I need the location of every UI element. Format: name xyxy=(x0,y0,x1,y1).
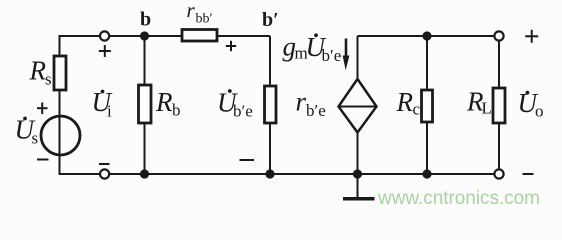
svg-text:b: b xyxy=(172,101,181,120)
wire left rail upper xyxy=(59,35,61,57)
label RL xyxy=(466,87,492,118)
svg-text:s: s xyxy=(45,70,52,89)
svg-text:c: c xyxy=(413,100,421,119)
minus input bottom xyxy=(99,163,110,165)
svg-text:o: o xyxy=(535,102,544,121)
label Uo xyxy=(518,88,544,121)
wire controlled-source branch upper xyxy=(357,36,359,80)
svg-text:s: s xyxy=(32,129,39,148)
junction Rc bottom xyxy=(422,169,431,178)
minus output bottom xyxy=(523,173,534,175)
wire left rail lower xyxy=(59,89,61,175)
wire b' branch upper xyxy=(269,36,271,87)
wire bottom rail xyxy=(60,173,500,175)
label Rc xyxy=(396,87,421,119)
svg-text:b′e: b′e xyxy=(233,102,253,121)
wire b' branch lower xyxy=(269,123,271,175)
ground xyxy=(343,174,375,199)
label Rb xyxy=(155,87,181,120)
resistor Rs xyxy=(54,56,66,90)
wire controlled-source branch lower xyxy=(357,131,359,174)
wire RL branch upper xyxy=(498,40,500,88)
resistor rbb' xyxy=(182,30,217,42)
label gmUb'e xyxy=(283,32,342,66)
wire top-right rail xyxy=(358,35,500,37)
resistor RL xyxy=(493,88,505,123)
terminal input top xyxy=(100,31,109,40)
svg-text:bb′: bb′ xyxy=(196,12,213,27)
plus Us xyxy=(37,103,48,115)
terminal output top xyxy=(494,31,503,40)
resistor rb'e xyxy=(265,86,277,123)
node b junction xyxy=(140,31,149,40)
svg-text:r: r xyxy=(187,0,196,22)
resistor Rc xyxy=(422,90,433,122)
controlled current source gmUb'e (diamond) xyxy=(339,79,377,133)
svg-text:R: R xyxy=(155,87,173,117)
label Ui xyxy=(92,87,113,121)
svg-text:www.cntronics.com: www.cntronics.com xyxy=(377,188,540,209)
current direction arrow xyxy=(343,39,350,71)
label Us xyxy=(15,115,39,148)
wire Rb branch lower xyxy=(144,122,146,174)
wire RL branch lower xyxy=(498,122,500,170)
svg-text:b′e: b′e xyxy=(306,101,326,120)
plus output top xyxy=(525,30,538,43)
wire Rc branch lower xyxy=(426,121,428,174)
svg-text:i: i xyxy=(107,102,112,121)
plus input top xyxy=(99,45,111,57)
label rbb' xyxy=(187,0,213,27)
minus Ub'e bottom xyxy=(240,159,255,161)
svg-text:R: R xyxy=(396,87,414,117)
terminal input bottom xyxy=(100,169,109,178)
junction source bottom xyxy=(353,169,362,178)
junction Rb bottom xyxy=(140,169,149,178)
wire top-left rail xyxy=(60,35,271,37)
svg-text:R: R xyxy=(29,56,47,86)
wire Rc branch upper xyxy=(426,36,428,90)
terminal output bottom xyxy=(494,169,503,178)
minus Us xyxy=(37,159,49,161)
junction rb'e bottom xyxy=(265,169,274,178)
label rb'e xyxy=(296,87,326,121)
svg-text:L: L xyxy=(482,99,492,118)
junction Rc top xyxy=(422,31,431,40)
svg-text:b′e: b′e xyxy=(322,46,342,65)
label Rs xyxy=(29,56,52,89)
svg-text:b′: b′ xyxy=(262,9,279,31)
svg-text:b: b xyxy=(140,9,151,31)
plus Ub'e top xyxy=(226,41,236,51)
voltage source Us xyxy=(41,116,80,155)
resistor Rb xyxy=(139,85,152,123)
wire Rb branch upper xyxy=(144,36,146,86)
svg-text:r: r xyxy=(296,87,307,117)
label Ub'e xyxy=(217,88,253,121)
